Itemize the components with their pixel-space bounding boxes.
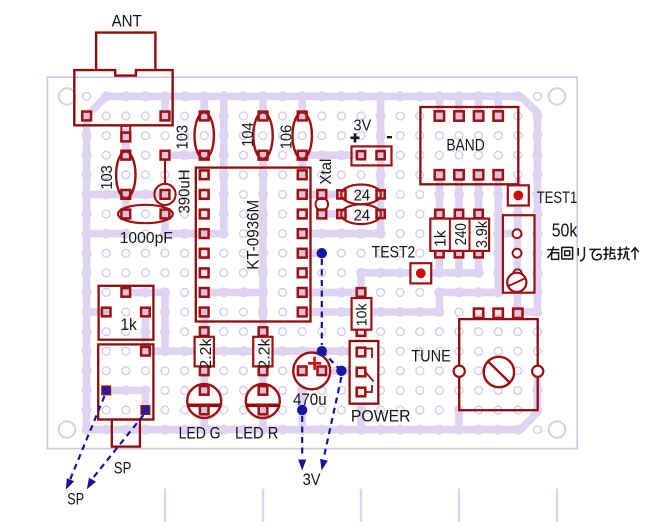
band switch BAND [420, 107, 518, 184]
wire [322, 367, 361, 375]
mounting hole top-left [59, 88, 75, 104]
perfboard outline [47, 77, 577, 448]
IC pin left row 10 [200, 288, 209, 297]
svg-text:106: 106 [279, 125, 296, 150]
wire [161, 292, 169, 351]
BAND pin col 21 bottom [494, 170, 503, 179]
capacitor 103 (top) [195, 112, 214, 158]
svg-text:LED G: LED G [179, 423, 221, 442]
BAND pin col 19 bottom [454, 170, 463, 179]
IC pin right row 7 [298, 229, 307, 238]
resistor 10k [357, 288, 366, 297]
node: blue dot power left [336, 366, 346, 376]
BAND pin col 19 top [454, 111, 463, 120]
BAND pin col 20 bottom [474, 170, 483, 179]
svg-text:Xtal: Xtal [318, 159, 335, 185]
BAND pin col 18 bottom [435, 170, 444, 179]
wire [494, 175, 502, 293]
svg-text:240: 240 [453, 223, 470, 245]
wire [436, 96, 444, 116]
wire [534, 113, 542, 313]
wire [455, 253, 463, 273]
svg-text:390uH: 390uH [177, 170, 194, 214]
wire [126, 289, 165, 297]
BAND pin col 21 top [494, 111, 503, 120]
svg-text:103: 103 [175, 125, 192, 150]
IC pin left row 6 [200, 210, 209, 219]
wire [302, 289, 361, 297]
mounting hole bottom-right [549, 421, 565, 437]
wire [142, 390, 150, 410]
capacitor 1000pF [118, 205, 173, 223]
wire [377, 96, 385, 233]
svg-text:SP: SP [114, 459, 131, 478]
svg-text:1k: 1k [120, 315, 137, 334]
battery connector 3V [352, 146, 392, 165]
node: IC pin tap (blue dot) [317, 248, 327, 258]
node: blue dot row13 [317, 346, 327, 356]
wire [439, 289, 498, 297]
wire [200, 371, 208, 391]
capacitor 104 [253, 112, 272, 158]
wire [436, 253, 444, 273]
wire [302, 249, 322, 257]
electrolytic capacitor 470u [293, 353, 330, 390]
svg-text:KT-0936M: KT-0936M [244, 200, 263, 270]
wire [142, 312, 150, 351]
wire [165, 230, 204, 238]
measurement dashed line IC pin to row13 [321, 259, 323, 345]
svg-text:TUNE: TUNE [411, 347, 451, 366]
svg-text:1k: 1k [432, 229, 449, 246]
IC pin right row 6 [298, 210, 307, 219]
capacitor 103 (left, with label) [116, 152, 135, 198]
svg-text:103: 103 [99, 165, 116, 190]
resistor 2.2k (left) [200, 327, 209, 336]
BAND pin col 18 top [435, 111, 444, 120]
IC pin left row 5 [200, 190, 209, 199]
wire [122, 194, 130, 214]
wire [521, 96, 537, 112]
IC KT-0936M [196, 168, 311, 322]
wire [87, 308, 107, 316]
wire [357, 273, 365, 293]
wire [302, 230, 380, 238]
wire [106, 387, 145, 395]
mounting hole top-right [549, 88, 565, 104]
measurement dashed line to SP 2 [91, 415, 144, 481]
wire [455, 410, 463, 430]
volume pot 1k [99, 286, 154, 340]
svg-text:LED R: LED R [235, 423, 278, 442]
IC pin left row 7 [200, 229, 209, 238]
svg-text:24: 24 [354, 187, 371, 204]
wire [361, 269, 479, 277]
IC pin right row 5 [298, 190, 307, 199]
svg-text:104: 104 [240, 122, 257, 147]
switch POWER [350, 341, 379, 404]
arrowhead 3V vert [298, 460, 306, 471]
wire [302, 191, 341, 199]
IC pin right row 11 [298, 308, 307, 317]
resistor array 1k / 240 / 3.9k [435, 210, 443, 218]
resistor 24 (upper) [341, 185, 381, 205]
wire [87, 426, 521, 434]
wire [259, 155, 267, 331]
wire [204, 230, 224, 238]
svg-text:BAND: BAND [446, 136, 484, 155]
wire [475, 253, 483, 273]
svg-text:TEST2: TEST2 [372, 243, 416, 262]
wire [455, 175, 463, 214]
svg-text:24: 24 [354, 208, 371, 225]
wire [534, 371, 542, 413]
antenna jack ANT [74, 33, 172, 126]
SP pad (blue) right [141, 406, 150, 415]
measurement dashed line to 3V (diag) [324, 377, 342, 459]
wire [200, 96, 208, 116]
svg-text:10k: 10k [354, 303, 370, 327]
IC pin right row 9 [298, 268, 307, 277]
wire [200, 312, 208, 332]
potentiometer TUNE [459, 319, 538, 410]
wire [145, 347, 361, 355]
wire [87, 191, 165, 199]
wire [298, 155, 306, 175]
svg-text:POWER: POWER [351, 407, 411, 426]
IC pin left row 11 [200, 308, 209, 317]
capacitor 106 [293, 112, 312, 158]
IC pin left row 8 [200, 249, 209, 258]
wire [87, 230, 126, 238]
note: turn right to raise resistance (kanji) [547, 247, 639, 261]
wire [204, 289, 263, 297]
arrowhead SP 1 [66, 478, 74, 490]
svg-text:50k: 50k [552, 221, 578, 241]
wire [87, 96, 107, 116]
resistor 24 (lower) [341, 204, 381, 224]
wire [83, 116, 91, 430]
wire [455, 96, 463, 116]
BAND pin col 20 top [474, 111, 483, 120]
test point TEST1 [508, 185, 529, 205]
wire [259, 371, 267, 391]
wire [436, 292, 444, 312]
IC pin left row 4 [200, 170, 209, 179]
IC pin right row 4 [298, 170, 307, 179]
wire [161, 96, 169, 116]
inductor 390uH [154, 160, 175, 205]
wire [106, 93, 518, 101]
svg-text:470u: 470u [293, 390, 327, 409]
mounting hole bottom-left [59, 421, 75, 437]
measurement dashed link between dots [322, 351, 342, 371]
speaker connector SP [98, 344, 153, 419]
svg-text:2.2k: 2.2k [256, 338, 273, 369]
wire [436, 175, 444, 214]
wire [521, 413, 538, 430]
trimmer 50k [503, 215, 535, 293]
arrowhead 3V diag [320, 459, 328, 471]
wire [302, 308, 439, 316]
test point TEST2 [410, 263, 431, 283]
svg-text:3V: 3V [354, 118, 372, 135]
wire [494, 96, 502, 116]
wire traces (lavender copper side) [87, 96, 538, 429]
svg-text:TEST1: TEST1 [537, 188, 578, 207]
wire [165, 151, 204, 159]
node: blue dot 470u minus [297, 405, 307, 415]
SP pad (blue) left [102, 386, 111, 395]
svg-text:ANT: ANT [112, 11, 142, 30]
IC pin left row 9 [200, 268, 209, 277]
crystal Xtal [316, 198, 329, 211]
wire [518, 308, 538, 316]
wire [357, 390, 365, 429]
wire [259, 410, 267, 430]
svg-text:3V: 3V [303, 470, 321, 489]
board section tick lines at bottom [165, 489, 557, 522]
wire [475, 96, 483, 116]
IC pin right row 8 [298, 249, 307, 258]
arrowhead SP 2 [87, 478, 96, 490]
wire [122, 131, 130, 155]
wire [514, 182, 522, 234]
wire [259, 96, 267, 116]
svg-text:SP: SP [67, 490, 84, 509]
resistor 2.2k (right) [259, 327, 268, 336]
wire [302, 151, 361, 159]
wire [322, 210, 342, 218]
wire [498, 230, 517, 238]
IC pin right row 10 [298, 288, 307, 297]
jumper pin below jack [121, 126, 130, 133]
wire [475, 175, 483, 214]
wire [298, 96, 306, 116]
svg-text:3.9k: 3.9k [474, 220, 491, 248]
svg-text:2.2k: 2.2k [198, 338, 215, 369]
measurement dashed line to SP 1 [70, 396, 105, 481]
wire [514, 234, 522, 312]
LED R [246, 384, 280, 418]
measurement dashed line to 3V (vert) [301, 416, 303, 458]
svg-text:1000pF: 1000pF [120, 230, 173, 247]
wire [298, 371, 306, 430]
wire [161, 214, 169, 234]
wire [200, 410, 208, 430]
wire [220, 96, 228, 233]
LED G [187, 384, 221, 418]
